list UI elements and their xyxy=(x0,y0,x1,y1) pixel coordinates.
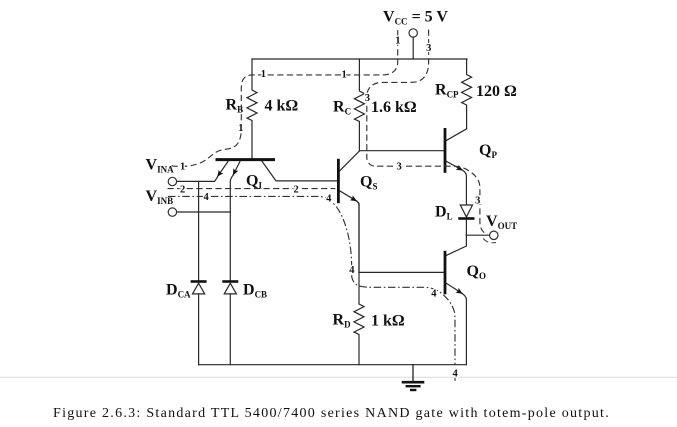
resistor RC xyxy=(354,59,364,151)
diode DCA xyxy=(191,280,207,365)
wire: emitter2 / DCB column xyxy=(230,175,233,280)
current path 2 (dashed) xyxy=(168,188,336,190)
resistor RB xyxy=(247,59,257,158)
transistor QP collector xyxy=(446,129,466,141)
node VCC terminal stub xyxy=(412,37,414,59)
svg-text:3: 3 xyxy=(475,196,480,207)
wire: input A xyxy=(177,177,218,181)
wire: top VCC rail xyxy=(252,58,467,60)
svg-text:4: 4 xyxy=(453,369,459,380)
svg-text:4 kΩ: 4 kΩ xyxy=(265,98,299,115)
current path 4 (dash-dot) xyxy=(168,196,455,364)
current path 3 hook under VOUT xyxy=(483,238,496,242)
faint scan line xyxy=(0,376,677,378)
svg-text:4: 4 xyxy=(326,194,332,205)
ground symbol xyxy=(403,365,423,390)
wire: QO base xyxy=(359,271,444,273)
transistor QS base bar xyxy=(337,160,340,202)
current path 4 tail below ground rail xyxy=(454,378,456,381)
svg-text:1: 1 xyxy=(261,69,266,80)
current path 1 (dashed) xyxy=(172,30,398,167)
node input B terminal xyxy=(168,208,176,216)
wire: input B xyxy=(177,211,231,213)
svg-text:2: 2 xyxy=(180,185,185,196)
svg-text:1: 1 xyxy=(395,36,400,47)
transistor QP base bar xyxy=(444,129,447,171)
wire: QS emitter to RD column xyxy=(357,201,359,272)
svg-text:120 Ω: 120 Ω xyxy=(476,83,517,100)
svg-text:4: 4 xyxy=(204,192,210,203)
svg-text:4: 4 xyxy=(431,289,437,300)
svg-text:1: 1 xyxy=(342,69,347,80)
wire: output node down to QO collector xyxy=(446,235,466,255)
node VOUT terminal xyxy=(490,231,498,239)
wire: ground rail (bottom) xyxy=(199,364,467,366)
transistor QS collector xyxy=(340,151,360,171)
wire: DCA column xyxy=(198,181,200,280)
svg-text:4: 4 xyxy=(349,265,355,276)
diode DCB xyxy=(222,280,238,365)
transistor Q1 emitter 1 xyxy=(218,161,229,177)
svg-text:VCC = 5 V: VCC = 5 V xyxy=(383,9,448,27)
svg-text:3: 3 xyxy=(426,43,431,54)
svg-text:3: 3 xyxy=(365,93,370,104)
svg-text:1: 1 xyxy=(180,162,185,173)
resistor RCP xyxy=(462,59,472,129)
transistor Q1 collector xyxy=(262,161,338,181)
wire: output node xyxy=(466,234,489,236)
wire: QO emitter to ground rail xyxy=(462,294,466,365)
svg-text:1.6 kΩ: 1.6 kΩ xyxy=(371,99,417,116)
node input A terminal xyxy=(168,177,176,185)
svg-text:1: 1 xyxy=(238,123,243,134)
svg-text:2: 2 xyxy=(294,185,299,196)
wire: QP base xyxy=(359,150,443,152)
transistor QO base bar xyxy=(444,252,447,293)
transistor Q1 base bar xyxy=(217,158,274,161)
node VCC terminal circle xyxy=(409,29,417,37)
current path 3 (dashed) xyxy=(367,30,488,235)
wire: QP emitter to DL xyxy=(463,170,467,205)
transistor Q1 emitter 2 xyxy=(233,161,240,175)
svg-text:3: 3 xyxy=(397,162,402,173)
transistor QO emitter xyxy=(446,283,462,293)
svg-text:Figure 2.6.3: Standard TTL 54: Figure 2.6.3: Standard TTL 5400/7400 ser… xyxy=(53,406,610,421)
transistor QP emitter xyxy=(446,161,462,170)
transistor QS emitter xyxy=(340,191,357,201)
svg-text:1 kΩ: 1 kΩ xyxy=(371,313,405,330)
diode DL xyxy=(458,205,474,235)
resistor RD xyxy=(354,203,364,364)
